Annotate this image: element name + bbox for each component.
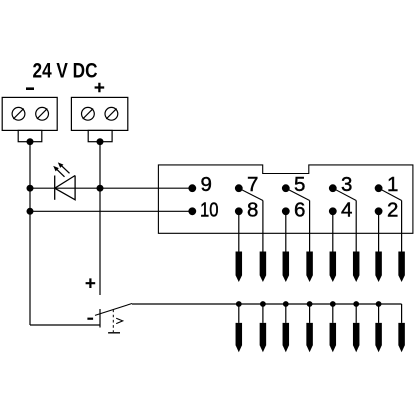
svg-text:2: 2 (387, 199, 398, 222)
bus node 2 (260, 301, 266, 307)
svg-text:7: 7 (247, 173, 258, 196)
svg-text:8: 8 (247, 199, 258, 222)
contact arm 3 (333, 188, 356, 200)
electrode E7 (375, 252, 382, 283)
electrode E16 (398, 323, 405, 352)
electrode E6 (353, 252, 360, 283)
switch S1 moving arm (95, 304, 132, 316)
electrode E12 (306, 323, 313, 352)
contact arm 1 (379, 188, 402, 200)
wire row 1 to pin 9 (30, 187, 192, 189)
pin 2 (375, 207, 383, 215)
pin 10 (188, 207, 196, 215)
wire plus vertical (99, 142, 101, 295)
plus polarity label (95, 83, 105, 93)
bus wire bottom (132, 303, 402, 305)
wire contact3 to electrode E6 (355, 201, 357, 252)
node plus/row1 (97, 185, 104, 192)
pin 7 (235, 184, 243, 192)
wire pin4 to electrode E5 (332, 211, 334, 251)
wire minus vertical (29, 142, 31, 325)
electrode E11 (283, 323, 290, 352)
actuator dashed link (112, 310, 114, 333)
wire bus to electrode E9 (238, 304, 240, 323)
svg-text:3: 3 (341, 173, 352, 196)
LED D1 (54, 163, 75, 200)
bus node 1 (236, 301, 242, 307)
bus node 5 (330, 301, 336, 307)
electrode E13 (330, 323, 337, 352)
pin 9 (188, 184, 196, 192)
bus node 3 (283, 301, 289, 307)
svg-text:10: 10 (200, 199, 219, 222)
electrode E5 (330, 252, 337, 283)
bus node 7 (376, 301, 382, 307)
electrode E4 (306, 252, 313, 283)
pin 4 (329, 207, 337, 215)
pin 6 (282, 207, 290, 215)
svg-text:4: 4 (341, 199, 352, 222)
wire bus to electrode E14 (355, 304, 357, 323)
pin 1 (375, 184, 383, 192)
pin 5 (282, 184, 290, 192)
actuator level chevron (116, 318, 123, 323)
relay module U1 outline (158, 165, 413, 233)
electrode E2 (260, 252, 267, 283)
terminal block X2 (+) (71, 97, 127, 141)
svg-text:6: 6 (294, 199, 305, 222)
wire bus to electrode E13 (332, 304, 334, 323)
switch S1 plus contact label (86, 278, 96, 288)
svg-text:5: 5 (294, 173, 305, 196)
junction dot X2 output (97, 138, 104, 145)
node minus/row2 (27, 208, 34, 215)
wire bottom-left horizontal (30, 324, 100, 326)
bus node 6 (353, 301, 359, 307)
electrode E8 (398, 252, 405, 283)
electrode E9 (236, 323, 243, 352)
svg-text:1: 1 (387, 173, 398, 196)
electrode E14 (353, 323, 360, 352)
bus node 4 (307, 301, 313, 307)
node minus/row1 (27, 185, 34, 192)
pin 3 (329, 184, 337, 192)
electrode E10 (260, 323, 267, 352)
electrode E1 (236, 252, 243, 283)
electrode E3 (283, 252, 290, 283)
wire pin8 to electrode E1 (238, 211, 240, 251)
wire contact7 to electrode E2 (262, 201, 264, 252)
wire bus to electrode E12 (309, 304, 311, 323)
actuator bar (108, 332, 120, 334)
wire row 2 to pin 10 (30, 210, 192, 212)
contact arm 7 (239, 188, 263, 200)
contact arm 5 (286, 188, 310, 200)
wire contact5 to electrode E4 (309, 201, 311, 252)
junction dot X1 output (27, 138, 34, 145)
wire contact1 to electrode E8 (401, 201, 403, 252)
wire bus to electrode E11 (285, 304, 287, 323)
switch S1 minus contact label (87, 318, 93, 320)
wire bus to electrode E10 (262, 304, 264, 323)
wire pin6 to electrode E3 (285, 211, 287, 251)
svg-text:24 V DC: 24 V DC (33, 60, 98, 83)
switch S1 fixed post (99, 309, 101, 328)
pin 8 (235, 207, 243, 215)
electrode E15 (375, 323, 382, 352)
minus polarity label (26, 87, 34, 90)
wire bus to electrode E15 (378, 304, 380, 323)
svg-text:9: 9 (201, 173, 212, 196)
wire pin2 to electrode E7 (378, 211, 380, 251)
bus corner wire to E16 (401, 304, 403, 323)
terminal block X1 (-) (2, 97, 57, 141)
